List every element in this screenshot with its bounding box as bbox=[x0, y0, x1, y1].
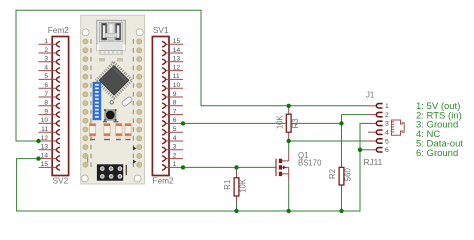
svg-text:1: 1 bbox=[385, 103, 389, 110]
svg-text:6: Ground: 6: Ground bbox=[416, 148, 458, 159]
transistor Q1 BS170 n-channel MOSFET bbox=[276, 141, 289, 182]
svg-text:5: 5 bbox=[44, 73, 48, 80]
svg-text:3: 3 bbox=[173, 144, 177, 151]
wire data-out net: R3 bottom / Q1 drain to J1 pin5 bbox=[289, 140, 368, 142]
svg-text:5: 5 bbox=[385, 138, 389, 145]
connector SV1/Fem2 right header box bbox=[152, 37, 169, 176]
svg-text:8: 8 bbox=[44, 100, 48, 107]
wire 5V net: left header pin12 to frame top to J1 pin1 bbox=[16, 10, 368, 141]
svg-text:14: 14 bbox=[41, 152, 49, 159]
svg-text:6: 6 bbox=[44, 82, 48, 89]
pin 11 of left header bbox=[39, 131, 57, 133]
pin 15 of right header bbox=[166, 43, 183, 45]
svg-text:6: 6 bbox=[173, 117, 177, 124]
junction node source ground bbox=[287, 209, 291, 213]
pin 8 of left header bbox=[39, 105, 57, 107]
pin 7 of left header bbox=[39, 96, 57, 98]
wire gate net: right header pin1 to R1 top to Q1 gate bbox=[183, 166, 276, 168]
junction node right pin1 bbox=[181, 165, 185, 169]
junction node left pin14 bbox=[36, 156, 40, 160]
pin 12 of right header bbox=[166, 70, 183, 72]
pin 15 of left header bbox=[39, 166, 57, 168]
junction node RTS junction bbox=[339, 121, 343, 125]
pin 14 of right header bbox=[166, 52, 183, 54]
svg-text:J1: J1 bbox=[366, 90, 374, 99]
svg-text:9: 9 bbox=[44, 108, 48, 115]
svg-text:2: 2 bbox=[44, 47, 48, 54]
wire R1 bottom to ground bbox=[236, 197, 238, 212]
junction node J1 pin6 ground bbox=[358, 148, 362, 152]
svg-text:7: 7 bbox=[44, 91, 48, 98]
svg-text:10K: 10K bbox=[239, 178, 248, 193]
junction node R3 top / 5V bbox=[287, 104, 291, 108]
svg-text:3: 3 bbox=[385, 121, 389, 128]
pin 10 of left header bbox=[39, 122, 57, 124]
svg-text:8: 8 bbox=[173, 100, 177, 107]
pin 1 of left header bbox=[39, 43, 57, 45]
svg-text:13: 13 bbox=[41, 144, 49, 151]
wire RTS net: right header pin6 to R2 top and J1 pin2 bbox=[183, 115, 368, 168]
svg-text:11: 11 bbox=[41, 126, 48, 133]
pin 5 of right header bbox=[166, 131, 183, 133]
svg-text:SV2: SV2 bbox=[53, 176, 69, 186]
resistor R3 10K bbox=[288, 106, 290, 115]
pin 14 of left header bbox=[39, 158, 57, 160]
pin 2 of left header bbox=[39, 52, 57, 54]
svg-text:6: 6 bbox=[385, 147, 389, 154]
svg-text:R1: R1 bbox=[223, 180, 232, 190]
pin 4 of left header bbox=[39, 70, 57, 72]
svg-text:R2: R2 bbox=[328, 169, 337, 179]
pin 5 of J1 bbox=[368, 140, 377, 142]
junction node R1 bottom ground bbox=[234, 209, 238, 213]
pin 3 of J1 bbox=[368, 122, 377, 124]
svg-text:1: 1 bbox=[173, 161, 177, 168]
pin 6 of J1 bbox=[368, 149, 377, 151]
pin 10 of right header bbox=[166, 87, 183, 89]
svg-text:SV1: SV1 bbox=[153, 25, 169, 35]
svg-text:4: 4 bbox=[44, 64, 48, 71]
pin 2 of right header bbox=[166, 158, 183, 160]
pin 6 of right header bbox=[166, 122, 183, 124]
svg-text:10K: 10K bbox=[276, 114, 285, 129]
svg-text:Fem2: Fem2 bbox=[48, 25, 70, 35]
pin 1 of right header bbox=[166, 166, 183, 168]
pin 3 of left header bbox=[39, 61, 57, 63]
pin 4 of right header bbox=[166, 140, 183, 142]
svg-text:2: 2 bbox=[173, 152, 177, 159]
svg-text:7: 7 bbox=[173, 108, 177, 115]
svg-text:11: 11 bbox=[173, 73, 180, 80]
svg-text:10: 10 bbox=[41, 117, 49, 124]
svg-text:4: 4 bbox=[173, 135, 177, 142]
wire Q1 source to ground bbox=[288, 182, 290, 211]
pin 11 of right header bbox=[166, 78, 183, 80]
junction node right pin6 bbox=[181, 121, 185, 125]
pin 6 of left header bbox=[39, 87, 57, 89]
pin 12 of left header bbox=[39, 140, 57, 142]
junction node R1 top / gate bbox=[234, 165, 238, 169]
pin 1 of J1 bbox=[368, 105, 377, 107]
pin 9 of left header bbox=[39, 114, 57, 116]
pin 8 of right header bbox=[166, 105, 183, 107]
svg-text:12: 12 bbox=[41, 135, 49, 142]
svg-text:12: 12 bbox=[173, 64, 181, 71]
pin 4 of J1 bbox=[368, 131, 377, 133]
svg-text:4: 4 bbox=[385, 130, 389, 137]
junction node R2 bottom ground bbox=[339, 209, 343, 213]
pin 13 of left header bbox=[39, 149, 57, 151]
svg-text:9: 9 bbox=[173, 91, 177, 98]
svg-text:15: 15 bbox=[41, 161, 49, 168]
wire ground net: left header pin14 down along bottom up to J1 pin6/pin3 bbox=[17, 123, 368, 211]
svg-text:RJ11: RJ11 bbox=[364, 157, 383, 167]
connector SV2/Fem2 left header box bbox=[52, 37, 68, 176]
Arduino Nano board photo (decorative) bbox=[81, 15, 145, 184]
junction node left pin12 bbox=[36, 139, 40, 143]
svg-text:3: 3 bbox=[44, 56, 48, 63]
resistor R1 10K bbox=[236, 167, 238, 178]
pin 5 of left header bbox=[39, 78, 57, 80]
svg-text:BS170: BS170 bbox=[298, 158, 322, 167]
svg-text:Fem2: Fem2 bbox=[152, 176, 174, 186]
svg-text:2: 2 bbox=[385, 112, 389, 119]
svg-text:13: 13 bbox=[173, 56, 181, 63]
pin 13 of right header bbox=[166, 61, 183, 63]
svg-text:R3: R3 bbox=[291, 118, 300, 128]
pin 9 of right header bbox=[166, 96, 183, 98]
wire R2 bottom to ground bbox=[341, 188, 343, 211]
svg-text:14: 14 bbox=[173, 47, 181, 54]
pin 2 of J1 bbox=[368, 114, 377, 116]
pin 3 of right header bbox=[166, 149, 183, 151]
svg-text:10: 10 bbox=[173, 82, 181, 89]
pin 7 of right header bbox=[166, 114, 183, 116]
junction node R3 bottom / drain bbox=[287, 139, 291, 143]
svg-text:15: 15 bbox=[173, 38, 181, 45]
icon RJ11 jack bbox=[392, 120, 405, 135]
resistor R2 560 bbox=[341, 166, 343, 168]
svg-text:1: 1 bbox=[44, 38, 48, 45]
svg-text:5: 5 bbox=[173, 126, 177, 133]
svg-text:560: 560 bbox=[344, 168, 353, 182]
